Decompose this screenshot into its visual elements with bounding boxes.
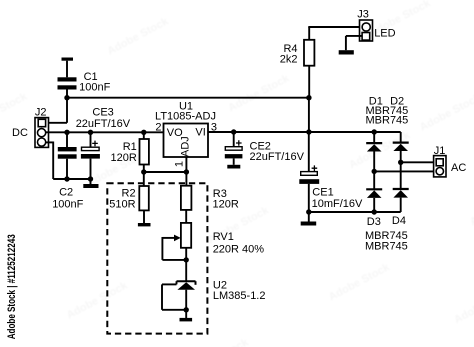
wire main input rail (right of U1) — [208, 131, 401, 133]
svg-text:LT1085-ADJ: LT1085-ADJ — [155, 110, 216, 122]
connector J1 — [434, 156, 446, 177]
svg-text:LED: LED — [374, 28, 395, 40]
node C2 top — [64, 130, 69, 135]
CE3 value label — [76, 106, 131, 129]
wire mid rail to J1 — [374, 170, 436, 172]
ground under J3 — [339, 50, 354, 54]
svg-text:Adobe Stock | #1125212243: Adobe Stock | #1125212243 — [6, 234, 18, 339]
R3 value label — [213, 188, 239, 211]
diode D1 — [366, 132, 382, 171]
wire J2 pin3 to ground rail — [46, 142, 91, 180]
U1 label — [155, 101, 216, 123]
svg-text:120R: 120R — [213, 199, 239, 211]
svg-text:MBR745: MBR745 — [365, 241, 408, 253]
wire R4 junction vertical — [308, 98, 310, 132]
svg-text:2: 2 — [155, 122, 161, 134]
node CE3 top — [88, 130, 93, 135]
zener U2 LM385 — [162, 260, 196, 310]
wire J3 pin2 to ground — [346, 36, 362, 50]
wire R1 bottom to R2 — [143, 172, 145, 186]
node C1/top-rail junction — [64, 95, 69, 100]
ground under CE3 — [83, 184, 98, 188]
R4 value label — [280, 43, 298, 65]
resistor R2 — [139, 186, 149, 223]
capacitor CE2 — [225, 132, 243, 165]
svg-text:J2: J2 — [35, 107, 47, 119]
wire bottom bridge rail — [309, 211, 401, 213]
svg-text:CE1: CE1 — [312, 187, 333, 199]
node R4 bottom rail — [306, 129, 311, 134]
wire main output rail (left of U1) — [46, 131, 164, 133]
svg-text:D4: D4 — [392, 215, 406, 227]
ground under R2 — [138, 223, 151, 226]
svg-text:100nF: 100nF — [79, 81, 110, 93]
wire J2 pin1 to top rail — [49, 122, 68, 124]
svg-text:DC: DC — [12, 127, 28, 139]
wire D2 to J1 pin1 — [401, 161, 437, 163]
resistor R1 — [140, 132, 149, 172]
node D3 bottom — [372, 209, 377, 214]
node R4/top-rail junction — [306, 95, 311, 100]
node CE3 bottom — [88, 176, 93, 181]
node CE1 bottom — [306, 209, 311, 214]
node D1 top — [372, 129, 377, 134]
connector J3 — [360, 20, 373, 41]
svg-text:120R: 120R — [111, 152, 137, 164]
svg-text:ADJ: ADJ — [179, 136, 191, 157]
svg-text:D3: D3 — [367, 216, 381, 228]
svg-text:100nF: 100nF — [52, 199, 83, 211]
ground under CE2 — [227, 165, 240, 169]
diode D3 — [366, 171, 382, 212]
D1 D2 labels — [366, 96, 409, 127]
C1 value label — [79, 71, 110, 93]
node U2 anode — [184, 307, 189, 312]
node C2 bottom — [64, 176, 69, 181]
svg-text:2k2: 2k2 — [280, 54, 298, 66]
svg-text:10mF/16V: 10mF/16V — [312, 198, 363, 210]
svg-text:510R: 510R — [109, 199, 135, 211]
resistor R4 — [304, 27, 314, 98]
resistor R3 — [181, 186, 192, 223]
capacitor C2 — [58, 132, 77, 179]
connector J2 — [35, 118, 49, 148]
U2 label — [213, 280, 266, 303]
wire top rail — [67, 97, 309, 99]
svg-text:J3: J3 — [357, 8, 369, 20]
svg-text:RV1: RV1 — [213, 231, 234, 243]
node CE2 top — [231, 129, 236, 134]
svg-text:MBR745: MBR745 — [366, 114, 409, 126]
svg-text:22uFT/16V: 22uFT/16V — [76, 118, 131, 130]
wire adj row — [144, 171, 187, 173]
node RV1 bottom — [184, 257, 189, 262]
svg-text:220R 40%: 220R 40% — [213, 243, 265, 255]
diode D4 — [393, 189, 409, 212]
svg-text:LM385-1.2: LM385-1.2 — [213, 290, 266, 302]
ground under U2 — [180, 318, 193, 322]
svg-text:VI: VI — [195, 127, 205, 139]
RV1 value label — [213, 231, 265, 255]
node D2 to J1 pin1 — [398, 160, 403, 165]
ground under CE1 — [301, 222, 317, 226]
R2 value label — [109, 187, 135, 210]
C2 value label — [52, 186, 83, 210]
dashed box — [107, 183, 207, 333]
R1 value label — [111, 141, 137, 164]
CE1 value label — [312, 187, 363, 211]
svg-text:J1: J1 — [434, 145, 446, 157]
svg-text:CE3: CE3 — [92, 106, 113, 118]
capacitor CE3 — [81, 132, 100, 184]
node R1 bottom — [141, 169, 146, 174]
potentiometer RV1 — [162, 223, 191, 260]
svg-text:AC: AC — [451, 162, 466, 174]
diode D2 — [393, 132, 409, 189]
node R1 top — [141, 130, 146, 135]
stock id sidebar text — [6, 234, 18, 339]
op-amp U1 LT1085-ADJ — [164, 124, 209, 158]
D3 D4 labels — [365, 215, 408, 252]
svg-text:C2: C2 — [59, 186, 73, 198]
wire U1 adj pin down — [185, 157, 187, 186]
node ADJ junction — [184, 169, 189, 174]
svg-text:1: 1 — [174, 161, 186, 167]
wire R4 to J3 — [308, 26, 362, 28]
svg-text:22uFT/16V: 22uFT/16V — [250, 151, 305, 163]
capacitor C1 — [58, 58, 77, 123]
CE2 value label — [250, 141, 305, 163]
wire U2 to ground — [185, 310, 187, 318]
node D1 bottom / mid rail — [372, 169, 377, 174]
capacitor CE1 — [299, 132, 319, 222]
